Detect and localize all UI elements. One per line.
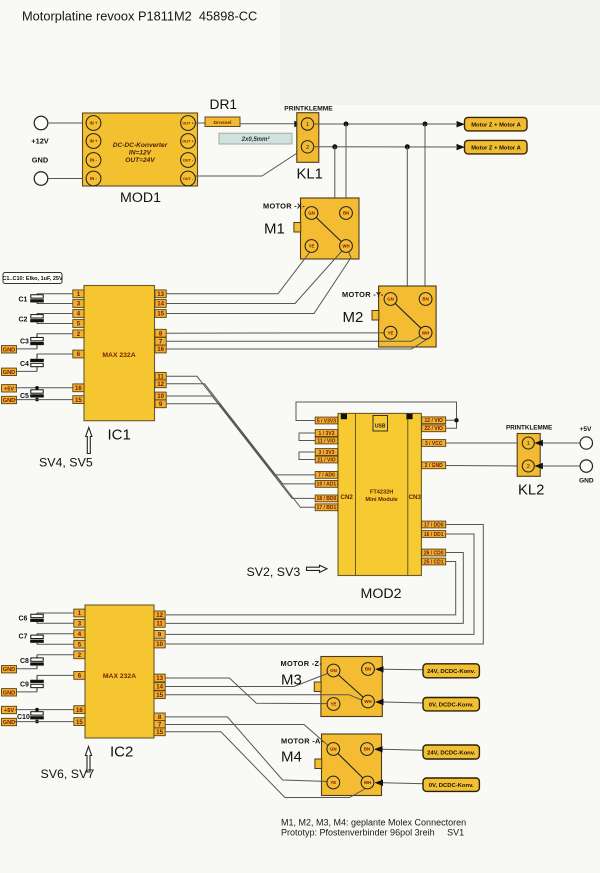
IC1 pin 10 (right) xyxy=(155,392,166,400)
svg-text:PRINTKLEMME: PRINTKLEMME xyxy=(506,424,552,431)
IC2 pin 15 (right) xyxy=(154,728,165,736)
MOD1 pin OUT - xyxy=(181,153,196,168)
wire MOD2 GND to KL2-2 xyxy=(446,465,523,468)
svg-text:C6: C6 xyxy=(19,616,28,623)
wire C4 to GND xyxy=(15,370,37,372)
IC2 pin 10 (right) xyxy=(154,640,165,648)
wire KL1-2 0V rail xyxy=(313,146,456,148)
M1 pin WH xyxy=(340,240,353,253)
svg-text:GN: GN xyxy=(308,211,315,216)
capacitor C4 xyxy=(30,354,44,371)
svg-text:M4: M4 xyxy=(281,749,302,766)
svg-text:3: 3 xyxy=(77,301,81,308)
IC1 pin 7 (right) xyxy=(155,337,166,345)
KL2 pin 1 xyxy=(522,437,534,449)
IC1 pin 11 (right) xyxy=(155,372,166,380)
wire IC2 pin3 to C6 xyxy=(37,622,74,624)
junction 24V M2 xyxy=(423,122,428,127)
wire GND to MOD1 IN- xyxy=(48,178,88,180)
wire MOD2 U-link 3V3/VIO xyxy=(299,433,315,441)
node +5V (IC2) xyxy=(2,706,17,714)
motor connector M3 xyxy=(314,657,382,717)
node +12V xyxy=(31,116,49,145)
svg-text:DR1: DR1 xyxy=(210,97,238,112)
capacitor C5 xyxy=(30,388,44,400)
motor connector M2 xyxy=(372,286,436,347)
svg-text:1: 1 xyxy=(77,291,81,298)
wire C8 to GND xyxy=(15,668,37,670)
IC U2 MAX232A IC2 xyxy=(85,605,154,738)
node GND (KL2) xyxy=(579,460,594,485)
svg-text:10 / AD1: 10 / AD1 xyxy=(317,482,337,488)
wire MOD2 CD1 to IC2-12 xyxy=(166,562,456,615)
MOD2 pin 3 / VCC (right) xyxy=(422,440,446,447)
svg-text:+12V: +12V xyxy=(31,137,49,146)
ground GND (C9) xyxy=(2,689,17,697)
wire MOD1 OUT+ to DR1 xyxy=(195,122,205,124)
svg-text:YE: YE xyxy=(388,330,394,335)
wire IC1 pin2 to C3 xyxy=(37,333,73,335)
wire C9 to GND xyxy=(15,691,37,693)
M2 pin WH xyxy=(419,326,432,339)
svg-text:11: 11 xyxy=(156,621,163,628)
svg-text:M3: M3 xyxy=(281,672,302,689)
wire GND to IC1 pin15 xyxy=(15,399,73,401)
MOD2 pin 16 / DD1 (right) xyxy=(422,531,446,538)
svg-text:WH: WH xyxy=(422,330,429,335)
svg-text:15: 15 xyxy=(156,692,163,699)
motor connector M1 xyxy=(294,198,359,259)
M1 pin GN xyxy=(305,207,318,220)
svg-text:C3: C3 xyxy=(20,339,29,346)
svg-text:C1..C10: Elko, 1uF, 25V: C1..C10: Elko, 1uF, 25V xyxy=(2,276,63,282)
MOD2 pin 2 / GND (right) xyxy=(422,462,446,469)
MOD2 pin 21 / VIO xyxy=(315,456,338,463)
IC U1 MAX232A IC1 xyxy=(84,286,155,421)
wire IC1 pin5 to C2 xyxy=(37,323,73,325)
svg-text:5: 5 xyxy=(78,641,82,648)
module MOD2 FT4232H Mini Module xyxy=(338,413,422,575)
wire 0V drop to M1 WH xyxy=(335,147,344,245)
svg-text:MOD2: MOD2 xyxy=(361,586,402,602)
svg-text:M2: M2 xyxy=(343,309,364,326)
svg-text:USB: USB xyxy=(375,424,386,430)
svg-text:M1, M2, M3, M4: geplante Molex: M1, M2, M3, M4: geplante Molex Connector… xyxy=(281,817,466,827)
wire DR1 to KL1 pin 1 xyxy=(240,123,298,125)
node +5V (KL2) xyxy=(580,426,593,449)
wire 24V drop to M2 BN xyxy=(424,124,426,293)
capacitor C1 xyxy=(30,294,44,304)
module MOD1 DC-DC-Konverter xyxy=(83,113,198,186)
M4 pin GN xyxy=(327,743,340,756)
svg-text:DC-DC-Konverter: DC-DC-Konverter xyxy=(113,142,168,149)
svg-text:C9: C9 xyxy=(20,682,29,689)
svg-text:C4: C4 xyxy=(20,361,29,368)
svg-text:5 / V3V3: 5 / V3V3 xyxy=(317,418,336,424)
junction 0V M2 xyxy=(405,144,410,149)
svg-text:6: 6 xyxy=(78,673,82,680)
svg-text:MOTOR -Z-: MOTOR -Z- xyxy=(281,659,323,668)
svg-text:2: 2 xyxy=(78,652,82,659)
capacitor C3 xyxy=(30,334,44,349)
M4 pin BN xyxy=(361,743,374,756)
svg-text:OUT=24V: OUT=24V xyxy=(125,157,155,164)
svg-text:Prototyp: Pfostenverbinder 96p: Prototyp: Pfostenverbinder 96pol 3reih S… xyxy=(281,828,464,838)
svg-text:2: 2 xyxy=(77,331,81,338)
svg-text:GN: GN xyxy=(387,297,394,302)
wire IC2 pin5 to C7 xyxy=(37,643,74,645)
svg-text:IN -: IN - xyxy=(90,176,97,181)
wire IC1-7 to M2 WH xyxy=(166,334,424,342)
svg-text:2x0,5mm²: 2x0,5mm² xyxy=(241,136,271,143)
svg-text:1: 1 xyxy=(306,122,309,128)
IC1 pin 16 xyxy=(73,384,84,392)
wire +5V to KL2-1 xyxy=(534,440,543,446)
IC1 pin 14 (right) xyxy=(155,300,166,308)
svg-text:OUT +: OUT + xyxy=(182,121,194,125)
IC2 pin 2 xyxy=(74,651,85,659)
MOD2 pin 22 / VIO (right) xyxy=(422,425,446,432)
connector arrow SV6 SV7 xyxy=(85,747,91,773)
IC2 pin 12 (right) xyxy=(154,611,165,619)
MOD2 pin 26 / CD0 (right) xyxy=(422,549,446,556)
svg-text:22 / VIO: 22 / VIO xyxy=(425,426,443,432)
MOD1 pin OUT - xyxy=(181,171,196,186)
svg-text:IC2: IC2 xyxy=(110,744,133,761)
wire IC1-14 to M1 WH xyxy=(166,248,345,304)
svg-text:IC1: IC1 xyxy=(108,427,131,444)
svg-text:MOD1: MOD1 xyxy=(120,190,161,206)
svg-text:18 / BD0: 18 / BD0 xyxy=(317,496,337,502)
svg-text:GND: GND xyxy=(3,370,15,376)
wire IC2 pin4 to C7 xyxy=(37,633,74,635)
svg-text:Mini Module: Mini Module xyxy=(365,497,397,503)
svg-text:GND: GND xyxy=(3,667,15,673)
svg-text:CN2: CN2 xyxy=(341,494,354,501)
IC1 pin 2 xyxy=(73,330,84,338)
svg-text:C8: C8 xyxy=(20,658,29,665)
MOD1 pin IN + xyxy=(86,134,101,149)
wire IC1 pin3 to C1 xyxy=(37,303,73,305)
svg-text:3 / VCC: 3 / VCC xyxy=(425,441,443,447)
svg-text:16: 16 xyxy=(75,385,82,392)
wire IC1-12 to MOD2 AD1 xyxy=(166,384,316,484)
capacitor C9 xyxy=(30,675,44,692)
ground GND (C5) xyxy=(2,396,17,404)
IC1 pin 3 xyxy=(73,300,84,308)
MOD2 pin 11 / VIO xyxy=(315,437,338,444)
svg-text:13: 13 xyxy=(157,291,164,298)
svg-text:C10: C10 xyxy=(17,714,30,721)
IC2 pin 1 xyxy=(74,609,85,617)
svg-text:16: 16 xyxy=(157,346,164,353)
wire 0V drop to M2 WH xyxy=(407,147,421,331)
svg-text:4: 4 xyxy=(77,311,81,318)
svg-text:YE: YE xyxy=(330,780,336,785)
M3 pin YE xyxy=(327,698,340,711)
svg-text:GND: GND xyxy=(579,477,594,484)
wire IC1 pin6 to C4 xyxy=(37,353,73,355)
wire IC1-9 to MOD2 BD1 xyxy=(166,404,316,508)
wire +5V to IC2 pin16 xyxy=(15,709,74,711)
svg-text:KL1: KL1 xyxy=(297,167,323,183)
svg-text:12 / VIO: 12 / VIO xyxy=(425,418,443,424)
MOD2 pin 1 / 3V3 xyxy=(315,430,338,437)
wire IC2-14 to M3 GN xyxy=(165,673,330,687)
junction C5 +5V xyxy=(35,386,39,390)
IC1 pin 16 (right) xyxy=(155,345,166,353)
label 24V DCDC-Konv (M4) xyxy=(423,745,479,759)
svg-text:6: 6 xyxy=(77,351,81,358)
svg-text:GND: GND xyxy=(3,690,15,696)
wire MOD2 VCC to KL2-1 xyxy=(446,442,523,444)
wire 24V DCDC to M4 BN xyxy=(374,746,383,752)
svg-text:MOTOR -X-: MOTOR -X- xyxy=(263,202,305,211)
svg-text:15: 15 xyxy=(75,397,82,404)
M2 pin GN xyxy=(384,293,397,306)
wire IC2-15 to M3 WH xyxy=(165,695,364,701)
svg-text:14: 14 xyxy=(156,684,163,691)
IC1 pin 5 xyxy=(73,320,84,328)
svg-text:WH: WH xyxy=(342,244,349,249)
svg-text:YE: YE xyxy=(309,244,315,249)
IC1 pin 15 (right) xyxy=(155,310,166,318)
M2 pin BN xyxy=(419,293,432,306)
svg-text:GN: GN xyxy=(330,747,337,752)
wire GND to IC2 pin15 xyxy=(15,721,74,723)
svg-text:2: 2 xyxy=(527,464,530,470)
svg-text:BN: BN xyxy=(343,211,349,216)
wire IC2-13 to M3 YE xyxy=(165,678,328,704)
ground GND (C3) xyxy=(2,346,17,354)
svg-text:IN +: IN + xyxy=(90,121,98,126)
svg-text:SV6, SV7: SV6, SV7 xyxy=(41,767,95,781)
label 0V DCDC-Konv (M4) xyxy=(423,778,479,791)
M4 pin YE xyxy=(327,776,340,789)
MOD2 pin 18 / BD0 xyxy=(315,495,338,502)
svg-text:24V, DCDC-Konv.: 24V, DCDC-Konv. xyxy=(427,669,475,675)
svg-text:BN: BN xyxy=(365,667,371,672)
svg-text:GND: GND xyxy=(3,398,15,404)
label 2x0,5mm2 xyxy=(219,133,292,144)
svg-text:+5V: +5V xyxy=(4,386,14,392)
wire 24V drop to M1 BN xyxy=(345,124,347,207)
wire KL1-1 24V rail xyxy=(313,123,456,125)
IC2 pin 15 xyxy=(74,718,85,726)
svg-text:24V, DCDC-Konv.: 24V, DCDC-Konv. xyxy=(427,750,475,756)
wire IC2-8 to M4 YE xyxy=(165,717,328,782)
MOD2 pin 10 / AD1 xyxy=(315,481,338,488)
node GND input xyxy=(32,156,49,186)
svg-text:SV4, SV5: SV4, SV5 xyxy=(39,456,93,470)
svg-text:YE: YE xyxy=(331,702,337,707)
svg-text:14: 14 xyxy=(157,301,164,308)
wire MOD2 DD0 to IC2-10 xyxy=(166,525,483,645)
wire IC1 pin4 to C2 xyxy=(37,313,73,315)
IC2 pin 8 (right) xyxy=(154,713,165,721)
KL1 pin 2 xyxy=(301,141,313,153)
wire IC1-13 to M1 YE xyxy=(166,251,311,294)
svg-text:15: 15 xyxy=(157,311,164,318)
svg-text:15: 15 xyxy=(76,719,83,726)
M3 pin WH xyxy=(362,695,375,708)
svg-text:SV2, SV3: SV2, SV3 xyxy=(247,565,301,579)
IC1 pin 9 (right) xyxy=(155,400,166,408)
svg-text:IN -: IN - xyxy=(90,158,97,163)
node +5V (IC1) xyxy=(2,385,17,393)
wire IC2 pin1 to C6 xyxy=(37,612,74,614)
wire IC2 pin2 to C8 xyxy=(37,654,74,656)
MOD1 pin OUT + xyxy=(181,134,196,149)
IC2 pin 16 xyxy=(74,706,85,714)
svg-text:Motor Z + Motor A: Motor Z + Motor A xyxy=(471,123,521,129)
wire 0V DCDC to M4 WH xyxy=(375,780,384,786)
svg-text:C1: C1 xyxy=(19,296,28,303)
svg-text:WH: WH xyxy=(364,780,371,785)
svg-text:0V, DCDC-Konv.: 0V, DCDC-Konv. xyxy=(429,783,474,789)
MOD2 pin 17 / DD0 (right) xyxy=(422,521,446,528)
IC1 pin 6 xyxy=(73,350,84,358)
wire +12V to MOD1 IN+ xyxy=(48,122,88,124)
IC1 pin 4 xyxy=(73,310,84,318)
svg-text:11: 11 xyxy=(157,373,164,380)
wire IC1 pin1 to C1 xyxy=(37,293,73,295)
svg-text:16 / DD1: 16 / DD1 xyxy=(424,532,444,538)
label 0V DCDC-Konv (M3) xyxy=(423,698,479,711)
junction C5 GND xyxy=(35,398,39,402)
svg-text:GND: GND xyxy=(32,156,49,165)
svg-text:25 / CD1: 25 / CD1 xyxy=(424,559,444,565)
IC1 pin 8 (right) xyxy=(155,329,166,337)
svg-text:MAX 232A: MAX 232A xyxy=(102,352,135,359)
MOD1 pin OUT + xyxy=(181,116,196,131)
label 24V DCDC-Konv (M3) xyxy=(423,664,479,678)
wire IC1-10 to MOD2 BD0 xyxy=(166,396,316,498)
wire IC1-16 to M2 WH xyxy=(166,339,428,349)
IC1 pin 15 xyxy=(73,396,84,404)
M1 pin BN xyxy=(340,207,353,220)
MOD2 pin 5 / V3V3 xyxy=(315,417,338,424)
svg-text:MAX 232A: MAX 232A xyxy=(103,673,136,680)
MOD2 pin 12 / VIO (right) xyxy=(422,417,446,424)
inductor DR1 Drossel xyxy=(205,117,240,127)
ground GND (C10) xyxy=(2,718,17,726)
svg-text:15: 15 xyxy=(156,729,163,736)
svg-text:PRINTKLEMME: PRINTKLEMME xyxy=(284,106,333,113)
svg-text:IN=12V: IN=12V xyxy=(129,150,152,157)
capacitor C7 xyxy=(30,634,44,644)
capacitor C10 xyxy=(30,710,44,722)
label Motor Z + Motor A (bottom) xyxy=(465,140,528,154)
junction C10 +5V xyxy=(35,708,39,712)
IC2 pin 5 xyxy=(74,640,85,648)
svg-text:1: 1 xyxy=(78,610,82,617)
svg-text:2: 2 xyxy=(306,145,309,151)
svg-text:KL2: KL2 xyxy=(518,483,544,499)
svg-text:1 / 3V3: 1 / 3V3 xyxy=(319,431,335,437)
svg-text:10: 10 xyxy=(157,393,164,400)
svg-text:16: 16 xyxy=(76,707,83,714)
IC1 pin 13 (right) xyxy=(155,290,166,298)
svg-text:OUT -: OUT - xyxy=(183,177,194,181)
wire IC1-15 to M1 WH xyxy=(166,252,351,314)
junction 0V M1 xyxy=(332,144,337,149)
MOD1 pin IN + xyxy=(86,116,101,131)
svg-text:12: 12 xyxy=(157,381,164,388)
svg-text:WH: WH xyxy=(364,699,371,704)
IC1 pin 12 (right) xyxy=(155,380,166,388)
wire IC1-11 to MOD2 AD0 xyxy=(166,376,316,475)
svg-text:BN: BN xyxy=(422,297,428,302)
svg-text:5: 5 xyxy=(77,321,81,328)
wire MOD2 DD1 to IC2-9 xyxy=(166,534,474,634)
svg-text:13: 13 xyxy=(156,675,163,682)
capacitor C2 xyxy=(30,314,44,324)
IC2 pin 6 xyxy=(74,672,85,680)
svg-text:GND: GND xyxy=(3,720,15,726)
svg-text:0V, DCDC-Konv.: 0V, DCDC-Konv. xyxy=(429,702,474,708)
wire MOD2 CD0 to IC2-11 xyxy=(166,553,463,624)
IC2 pin 3 xyxy=(74,619,85,627)
wire MOD2 V3V3 top loop xyxy=(296,402,457,421)
svg-text:GN: GN xyxy=(330,668,337,673)
svg-text:4: 4 xyxy=(78,631,82,638)
MOD1 pin IN - xyxy=(86,153,101,168)
wire 24V DCDC to M3 BN xyxy=(375,666,384,672)
svg-text:MOTOR -A-: MOTOR -A- xyxy=(281,737,324,746)
wire IC1-8 to M2 YE xyxy=(166,332,389,334)
wire MOD1 OUT- to KL1 pin 2 xyxy=(195,151,301,177)
svg-text:11 / VIO: 11 / VIO xyxy=(317,438,335,444)
wire IC2 pin6 to C9 xyxy=(37,674,74,676)
wire IC2-7 to M4 GN xyxy=(165,725,331,749)
note C1..C10 Elko xyxy=(2,273,63,284)
ground GND (C8) xyxy=(2,666,17,674)
svg-text:17 / BD1: 17 / BD1 xyxy=(317,505,337,511)
IC2 pin 4 xyxy=(74,630,85,638)
capacitor C6 xyxy=(30,613,44,623)
IC2 pin 13 (right) xyxy=(154,674,165,682)
KL1 pin 1 xyxy=(301,118,313,130)
junction 24V M1 xyxy=(344,122,349,127)
svg-text:21 / VIO: 21 / VIO xyxy=(317,457,335,463)
label Motor Z + Motor A (top) xyxy=(465,117,528,130)
wire +5V to IC1 pin16 xyxy=(15,387,73,389)
M2 pin YE xyxy=(384,326,397,339)
svg-text:3: 3 xyxy=(78,620,82,627)
IC1 pin 1 xyxy=(73,290,84,298)
MOD2 pin 3 / 3V3 xyxy=(315,449,338,456)
svg-text:CN3: CN3 xyxy=(409,494,422,501)
MOD2 USB connector xyxy=(373,416,388,432)
connector arrow SV4 SV5 xyxy=(86,428,92,454)
wire GND to KL2-2 xyxy=(534,463,543,469)
MOD2 pin 7 / AD0 xyxy=(315,472,338,479)
junction C10 GND xyxy=(35,720,39,724)
motor connector M4 xyxy=(315,734,382,796)
svg-text:OUT -: OUT - xyxy=(183,158,194,162)
svg-text:+5V: +5V xyxy=(580,426,593,433)
MOD2 pin 17 / BD1 xyxy=(315,504,338,511)
svg-text:C5: C5 xyxy=(20,393,29,400)
svg-text:Motor Z + Motor A: Motor Z + Motor A xyxy=(471,146,521,152)
IC2 pin 11 (right) xyxy=(154,620,165,628)
junction VIO loop xyxy=(454,418,458,422)
svg-text:C2: C2 xyxy=(19,316,28,323)
wire MOD2 U-link 3V3/VIO 2 xyxy=(299,452,315,460)
svg-text:1: 1 xyxy=(527,441,530,447)
M1 pin YE xyxy=(305,240,318,253)
